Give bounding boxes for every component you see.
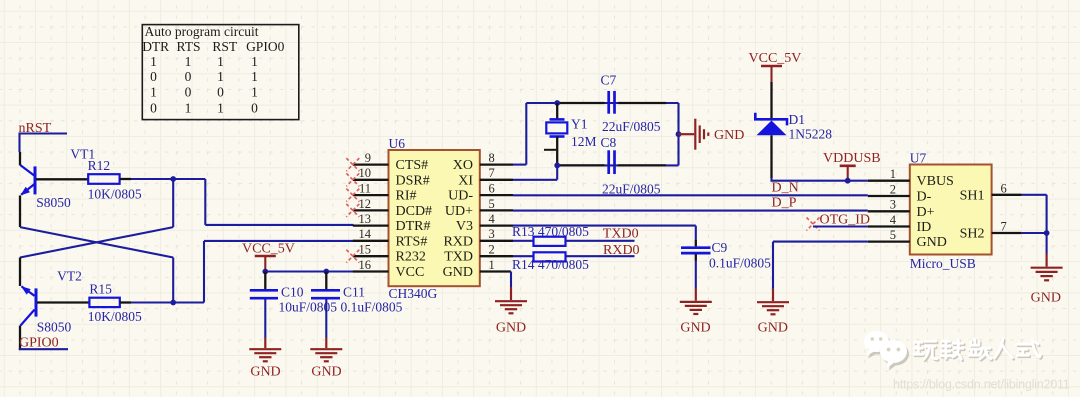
svg-text:0: 0 [185, 69, 192, 84]
wire VT2 base to R15 [37, 301, 89, 303]
ground below C10 [249, 338, 281, 362]
svg-text:VCC: VCC [396, 265, 425, 280]
svg-text:TXD0: TXD0 [603, 227, 639, 242]
svg-text:CTS#: CTS# [396, 158, 429, 173]
no-ERC marks pins 9-12,15 [346, 158, 359, 263]
svg-text:7: 7 [1001, 220, 1007, 234]
wire R12 right lead [120, 178, 131, 180]
svg-text:14: 14 [359, 227, 372, 241]
U7 right pin stubs 6-7 [992, 195, 1022, 233]
svg-text:0: 0 [185, 84, 192, 99]
svg-text:XI: XI [458, 173, 473, 188]
svg-text:1: 1 [150, 84, 157, 99]
svg-text:4: 4 [890, 213, 897, 227]
svg-text:7: 7 [489, 166, 495, 180]
svg-text:1: 1 [217, 100, 224, 115]
wire SH2 to corner [1022, 232, 1047, 234]
wire crystal top rail [526, 102, 678, 104]
wire C10 to ground [264, 300, 266, 338]
wire nRST horizontal [19, 132, 68, 134]
svg-text:1: 1 [251, 84, 258, 99]
svg-text:15: 15 [359, 243, 372, 257]
svg-text:RTS#: RTS# [396, 234, 428, 249]
svg-text:V3: V3 [456, 219, 473, 234]
svg-text:1N5228: 1N5228 [789, 127, 833, 142]
power VCC_5V (top) [749, 51, 802, 82]
svg-text:C9: C9 [712, 240, 728, 255]
svg-text:0: 0 [217, 84, 224, 99]
svg-text:1: 1 [251, 69, 258, 84]
svg-text:GND: GND [250, 365, 280, 380]
svg-text:R232: R232 [396, 250, 426, 265]
svg-text:5: 5 [890, 228, 896, 242]
svg-text:XO: XO [453, 158, 473, 173]
ground below C11 [310, 338, 342, 362]
tick mark near Y1 [544, 149, 556, 151]
capacitor C9 [681, 240, 711, 261]
node junction VDDUSB/VBUS [845, 178, 851, 184]
svg-text:GND: GND [758, 320, 788, 335]
resistor R14 [534, 252, 566, 261]
node junction R12/X [170, 176, 176, 182]
svg-text:SH1: SH1 [960, 188, 985, 203]
svg-text:RST: RST [212, 39, 238, 54]
svg-text:https://blog.csdn.net/libingli: https://blog.csdn.net/libinglin2011 [893, 378, 1070, 392]
svg-text:U6: U6 [389, 136, 406, 151]
svg-text:ID: ID [917, 220, 932, 235]
svg-text:Auto program circuit: Auto program circuit [145, 24, 259, 39]
ground (sideways) crystal [679, 119, 709, 150]
svg-text:D+: D+ [917, 205, 935, 220]
svg-text:16: 16 [359, 258, 372, 272]
svg-text:10uF/0805: 10uF/0805 [279, 300, 338, 315]
svg-text:1: 1 [251, 54, 258, 69]
svg-text:VCC_5V: VCC_5V [242, 242, 295, 257]
power VDDUSB [823, 151, 881, 181]
svg-text:1: 1 [217, 54, 224, 69]
svg-text:22uF/0805: 22uF/0805 [602, 119, 661, 134]
svg-text:UD-: UD- [448, 189, 473, 204]
svg-text:TXD: TXD [444, 250, 473, 265]
wire U6 pin3 to R13 [513, 240, 534, 242]
wire to U6 pin 14 [204, 240, 354, 242]
ground U7 pin5 [757, 289, 789, 314]
svg-text:GND: GND [714, 128, 744, 143]
ground U6 pin1 [495, 287, 527, 313]
wire UD- rail (D_N) [513, 194, 868, 196]
svg-text:GND: GND [917, 235, 947, 250]
U6 right pin stubs 8-1 [480, 165, 513, 272]
wire riser XO [525, 103, 527, 165]
svg-text:11: 11 [359, 182, 371, 196]
svg-text:GND: GND [443, 265, 473, 280]
resistor R15 [89, 298, 119, 307]
U6 left pin names [396, 158, 433, 280]
svg-text:9: 9 [365, 151, 371, 165]
wire right rail down [677, 103, 679, 165]
table: Auto program circuit truth table [142, 24, 299, 120]
svg-text:5: 5 [489, 197, 495, 211]
svg-text:1: 1 [185, 100, 192, 115]
svg-text:VT2: VT2 [57, 268, 82, 283]
svg-text:GPIO0: GPIO0 [19, 335, 59, 350]
U6 right pin names [443, 158, 474, 280]
connector U7 Micro_USB body [910, 165, 992, 255]
svg-text:1: 1 [185, 54, 192, 69]
svg-text:UD+: UD+ [445, 204, 473, 219]
svg-text:VCC_5V: VCC_5V [749, 51, 802, 66]
wire corner down to pin13 level [204, 179, 206, 225]
node junction crystal bottom [554, 163, 560, 169]
wire VT1 base to R12 [36, 178, 88, 180]
svg-text:RXD: RXD [443, 234, 473, 249]
wire X diagonal top-left to bottom-right [20, 227, 173, 257]
wire U7 pin5 GND drop [773, 242, 868, 289]
svg-text:1: 1 [890, 167, 896, 181]
transistor VT2 S8050 [21, 286, 37, 325]
wire D1 to U7 pin1 VBUS [772, 178, 868, 181]
svg-text:0: 0 [150, 69, 157, 84]
svg-text:VDDUSB: VDDUSB [823, 151, 881, 166]
crystal Y1 12M [546, 103, 567, 165]
wire X bottom-left to VT2 emitter [19, 258, 21, 287]
svg-text:S8050: S8050 [36, 195, 71, 210]
svg-text:C7: C7 [601, 73, 617, 88]
svg-text:12: 12 [359, 197, 372, 211]
wire to U6 pin 13 [205, 224, 353, 226]
wire R14 to RXD0 [566, 255, 635, 257]
svg-text:1: 1 [489, 258, 495, 272]
svg-text:12M: 12M [571, 134, 597, 149]
svg-text:8: 8 [489, 151, 495, 165]
wire crystal bottom rail [557, 164, 678, 166]
svg-text:C11: C11 [343, 285, 365, 300]
wire VT2 collector down [19, 326, 21, 350]
wire corner up to pin14 level [203, 241, 205, 303]
capacitor C7 [609, 91, 615, 114]
svg-text:6: 6 [1001, 181, 1007, 195]
watermark wechat logo [864, 331, 909, 371]
capacitor C10 [250, 272, 278, 299]
wire U6 pin2 to R14 [513, 255, 534, 257]
svg-text:0: 0 [150, 100, 157, 115]
wire D1 anode down [770, 135, 772, 178]
svg-text:1: 1 [217, 69, 224, 84]
U7 left pin stubs 1-5 [868, 181, 910, 242]
svg-text:RXD0: RXD0 [603, 243, 640, 258]
power VCC_5V (left) [242, 242, 295, 272]
U7 right pin names SH1 SH2 [960, 188, 985, 241]
wire R12 to corner [131, 178, 205, 180]
node junction GND tap [676, 131, 682, 137]
svg-text:3: 3 [489, 227, 495, 241]
svg-text:10K/0805: 10K/0805 [88, 186, 142, 201]
node junction crystal top [554, 100, 560, 106]
svg-text:GND: GND [311, 365, 341, 380]
svg-text:RTS: RTS [177, 39, 201, 54]
wire black segs top rail (C7 leads) [560, 102, 667, 104]
svg-text:U7: U7 [910, 151, 927, 166]
svg-text:10: 10 [359, 166, 372, 180]
watermark text strokes [914, 339, 1042, 361]
wire UD+ rail (D_P) [513, 210, 868, 212]
wire black segs bottom rail (C8 leads) [560, 164, 667, 166]
svg-text:GND: GND [680, 320, 710, 335]
svg-text:Micro_USB: Micro_USB [910, 256, 976, 271]
svg-text:GPIO0: GPIO0 [246, 39, 285, 54]
wire U6 pin 7 riser [513, 165, 557, 179]
wire X top-right vertical [172, 179, 174, 227]
svg-text:4: 4 [489, 212, 496, 226]
wire R15 to corner [131, 301, 204, 303]
wire GPIO0 [19, 348, 68, 350]
svg-text:6: 6 [489, 182, 495, 196]
svg-text:R12: R12 [88, 158, 111, 173]
svg-text:VBUS: VBUS [917, 174, 954, 189]
node junction R15/X [170, 300, 176, 306]
svg-text:S8050: S8050 [37, 320, 72, 335]
svg-text:R14 470/0805: R14 470/0805 [512, 257, 589, 272]
svg-text:0.1uF/0805: 0.1uF/0805 [341, 300, 403, 315]
wire X diagonal top-right to bottom-left [20, 227, 173, 257]
resistor R13 [534, 237, 566, 246]
svg-text:GND: GND [496, 321, 526, 336]
op-amp U6 body CH340G [389, 150, 480, 286]
wire U6 pin4 V3 to C9 [513, 226, 696, 240]
svg-text:2: 2 [489, 243, 495, 257]
svg-text:D_N: D_N [772, 181, 799, 196]
svg-text:2: 2 [890, 182, 896, 196]
wire X bottom-right vertical to R15 net [172, 258, 174, 303]
svg-text:10K/0805: 10K/0805 [88, 309, 142, 324]
svg-text:C8: C8 [601, 135, 617, 150]
U6 left pin stubs 9-16 [353, 165, 389, 272]
capacitor C11 [311, 272, 340, 299]
wire U6 pin1 GND drop [510, 272, 512, 288]
svg-text:RI#: RI# [396, 189, 417, 204]
resistor R12 [88, 174, 119, 184]
wire C11 to ground [325, 300, 327, 338]
svg-text:D-: D- [917, 190, 932, 205]
node junction SH [1044, 230, 1050, 236]
wire U6 pin 8 to riser [513, 164, 526, 166]
svg-text:SH2: SH2 [960, 227, 985, 242]
svg-text:3: 3 [890, 198, 896, 212]
svg-text:0.1uF/0805: 0.1uF/0805 [709, 256, 771, 271]
wire R13 to TXD0 [566, 240, 635, 242]
svg-text:DSR#: DSR# [396, 173, 430, 188]
transistor VT1 S8050 [20, 165, 35, 195]
svg-text:DTR#: DTR# [396, 219, 431, 234]
wire R15 right lead [120, 301, 131, 303]
wire VT1 emitter down [19, 196, 21, 228]
node junction VCC/C11 [323, 269, 329, 275]
svg-text:DTR: DTR [142, 39, 169, 54]
wire VCC rail to U6 pin 16 [265, 270, 353, 272]
svg-text:0: 0 [251, 100, 258, 115]
U7 pin names [917, 174, 954, 250]
diode D1 1N5228 zener [755, 113, 787, 136]
svg-text:1: 1 [150, 54, 157, 69]
wire nRST to VT1 collector [18, 134, 20, 153]
svg-text:D_P: D_P [772, 195, 797, 210]
svg-text:GND: GND [1031, 291, 1061, 306]
svg-text:DCD#: DCD# [396, 204, 433, 219]
wire SH to ground [1046, 233, 1048, 254]
ground below C9 [680, 289, 712, 315]
svg-text:OTG_ID: OTG_ID [820, 213, 871, 228]
ground U7 shields [1031, 254, 1063, 281]
no-ERC mark OTG_ID [807, 218, 820, 231]
svg-text:D1: D1 [789, 112, 806, 127]
wire OTG_ID to U7 pin4 [813, 225, 868, 227]
svg-text:CH340G: CH340G [389, 286, 438, 301]
svg-text:R15: R15 [89, 281, 112, 296]
svg-text:Y1: Y1 [571, 117, 588, 132]
wire VCC to D1 cathode [770, 82, 772, 118]
wire C9 to ground [695, 261, 697, 289]
svg-text:C10: C10 [281, 285, 304, 300]
capacitor C8 [609, 150, 615, 174]
wire SH1 to corner [1022, 195, 1047, 233]
svg-text:22uF/0805: 22uF/0805 [602, 181, 661, 196]
svg-text:13: 13 [359, 212, 372, 226]
node junction VCC/C10 [262, 269, 268, 275]
